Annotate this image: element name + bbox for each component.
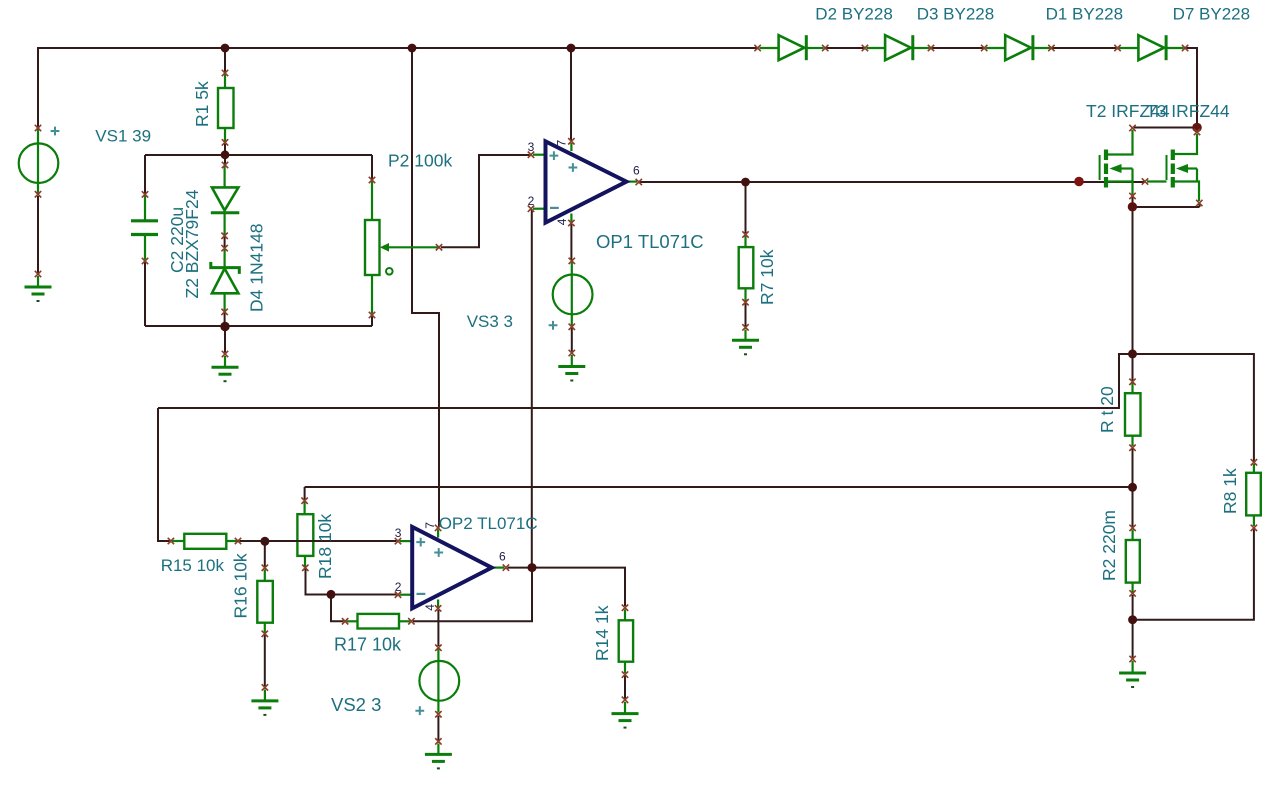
wire T3 source corner bbox=[1199, 204, 1201, 207]
wire rail down x412 jog to OP2 pin7 bbox=[412, 48, 439, 527]
ground VS3 bbox=[558, 355, 585, 381]
wire node C to R2 top bbox=[1132, 488, 1134, 527]
junction R15-R16 bbox=[260, 537, 269, 546]
svg-text:VS1 39: VS1 39 bbox=[95, 126, 151, 145]
wire pin2 node down to R17 left bbox=[331, 595, 344, 622]
ground node B bbox=[212, 356, 239, 381]
wire R7 top from output node bbox=[745, 182, 747, 233]
svg-text:4: 4 bbox=[423, 604, 437, 611]
svg-text:VS2 3: VS2 3 bbox=[331, 694, 381, 715]
op-amp OP2 TL071C bbox=[395, 522, 506, 611]
resistor R14 bbox=[619, 610, 633, 674]
resistor R15 bbox=[172, 534, 237, 549]
wire T2 source to source node bbox=[1132, 198, 1134, 207]
svg-text:D2 BY228: D2 BY228 bbox=[815, 4, 893, 23]
svg-text:R t 20: R t 20 bbox=[1097, 386, 1117, 433]
ground node D bbox=[1119, 661, 1146, 687]
resistor Rt bbox=[1125, 383, 1141, 446]
wire R1 bottom to node A bbox=[224, 144, 226, 154]
svg-text:VS3 3: VS3 3 bbox=[467, 312, 513, 331]
diode D7 BY228 bbox=[1119, 35, 1184, 60]
voltage source VS1 bbox=[19, 129, 59, 194]
svg-text:R8 1k: R8 1k bbox=[1220, 468, 1240, 514]
wire Rt node to R8 top bbox=[1133, 354, 1254, 461]
diode D2 BY228 bbox=[760, 35, 824, 60]
wire top rail left segment bbox=[38, 48, 757, 128]
resistor R2 bbox=[1126, 530, 1140, 593]
junction source node bbox=[1128, 202, 1137, 211]
diode D4 (lower, zener bar up) bbox=[211, 250, 240, 311]
junction Rt node bbox=[1128, 349, 1137, 358]
wire long feedback y408 bbox=[158, 354, 1131, 408]
diode D3 BY228 bbox=[867, 35, 930, 60]
wire OP2 output to R14 bbox=[508, 568, 626, 606]
wire source node down to Rt node bbox=[1132, 207, 1134, 354]
wire drain node horizontal bbox=[1134, 127, 1197, 129]
svg-text:OP2 TL071C: OP2 TL071C bbox=[439, 514, 538, 533]
ground R7 bbox=[732, 330, 759, 355]
wire node A to Z2 top bbox=[224, 156, 226, 164]
junction node D bbox=[1128, 615, 1137, 624]
wire VS3 to ground bbox=[571, 328, 573, 352]
svg-text:D1 BY228: D1 BY228 bbox=[1046, 4, 1124, 23]
wire Rt bottom to node C bbox=[1132, 449, 1134, 487]
junction gate pin bbox=[1074, 177, 1084, 187]
wire C2 bottom to node B bbox=[144, 263, 146, 327]
junction drain node bbox=[1192, 123, 1202, 133]
ground R14 bbox=[612, 702, 639, 728]
svg-text:6: 6 bbox=[633, 164, 640, 178]
svg-text:D3 BY228: D3 BY228 bbox=[917, 4, 995, 23]
wire R16 bottom to ground bbox=[264, 635, 266, 686]
wire D4 bottom to node B bbox=[224, 313, 226, 326]
resistor R18 bbox=[240, 502, 396, 567]
junction node A bbox=[221, 150, 230, 159]
ground VS1 bbox=[25, 276, 52, 301]
svg-text:R16 10k: R16 10k bbox=[231, 553, 251, 618]
wire node A horizontal bbox=[145, 154, 372, 156]
wire rail D2-D3 bbox=[826, 47, 864, 49]
diode D1 BY228 bbox=[986, 35, 1050, 60]
voltage source VS2 bbox=[419, 649, 459, 713]
junction rail R1 bbox=[221, 44, 230, 53]
label VS3 plus sign bbox=[549, 321, 558, 330]
ground VS2 bbox=[425, 744, 452, 769]
svg-text:T3 IRFZ44: T3 IRFZ44 bbox=[1146, 101, 1230, 121]
svg-text:R17 10k: R17 10k bbox=[334, 634, 402, 654]
voltage source VS3 bbox=[553, 262, 593, 326]
wire OP1 output long run to gates bbox=[640, 181, 1145, 183]
svg-text:6: 6 bbox=[499, 550, 506, 564]
wire rail D3-D1 bbox=[932, 47, 983, 49]
junction R7 output bbox=[741, 178, 750, 187]
junction node B bbox=[220, 322, 229, 331]
wire node B horizontal bbox=[145, 325, 372, 327]
wire rail to R1 top bbox=[224, 48, 226, 72]
transistor T2 IRFZ44 bbox=[1100, 130, 1133, 195]
wire rail D7 to right corner down bbox=[1186, 48, 1197, 126]
wire node D to ground bbox=[1132, 620, 1134, 658]
wire y408 corner down to R15 bbox=[158, 408, 170, 541]
wire node A to P2 top bbox=[371, 155, 373, 179]
wire rail junction to OP1 pin7 bbox=[570, 48, 572, 140]
wire node C horizontal y487 bbox=[305, 486, 1133, 488]
resistor R7 bbox=[739, 236, 754, 301]
svg-text:Z2 BZX79F24: Z2 BZX79F24 bbox=[182, 189, 202, 298]
resistor R17 bbox=[347, 614, 411, 629]
wire P2 bottom to node B bbox=[371, 317, 373, 327]
svg-text:4: 4 bbox=[555, 218, 569, 225]
wire OP1 pin2 down to OP2 output node bbox=[531, 210, 533, 568]
capacitor C2 bbox=[131, 196, 158, 260]
svg-text:R1 5k: R1 5k bbox=[192, 81, 212, 127]
potentiometer P2 bbox=[365, 182, 438, 314]
junction OP2 output node bbox=[528, 563, 537, 572]
resistor R1 bbox=[218, 75, 234, 142]
svg-text:D4 1N4148: D4 1N4148 bbox=[247, 223, 267, 312]
wire R14 bottom to ground bbox=[624, 676, 626, 699]
wire R7 bottom to ground bbox=[745, 304, 747, 327]
junction rail x412 bbox=[408, 44, 417, 53]
label VS2 plus sign bbox=[415, 706, 424, 715]
resistor R8 bbox=[1246, 464, 1261, 526]
wire R17 right to OP2 output node bbox=[413, 569, 532, 621]
wire node A to C2 top bbox=[144, 155, 146, 193]
op-amp OP1 TL071C bbox=[528, 140, 640, 226]
wire node D to R8 bottom bbox=[1133, 530, 1254, 620]
junction rail pin7 bbox=[567, 44, 576, 53]
svg-text:R18 10k: R18 10k bbox=[315, 514, 335, 579]
junction node C bbox=[1128, 483, 1137, 492]
svg-text:D7 BY228: D7 BY228 bbox=[1173, 4, 1251, 23]
diode Z2 (upper, cathode bar down) bbox=[211, 167, 240, 235]
wire node C corner to R18 top bbox=[304, 487, 306, 500]
resistor R16 bbox=[257, 570, 273, 633]
ground R16 bbox=[251, 690, 278, 715]
svg-text:R2 220m: R2 220m bbox=[1099, 510, 1119, 581]
junction pin2 node bbox=[327, 590, 336, 599]
wire OP1 pin4 to VS3 bbox=[570, 225, 572, 260]
wire OP2 pin4 to VS2 bbox=[437, 610, 439, 646]
wire R2 bottom to node D bbox=[1132, 595, 1134, 619]
svg-text:R7 10k: R7 10k bbox=[757, 249, 777, 305]
wire P2 wiper to OP1 pin3 bbox=[441, 155, 530, 247]
wire R18 bottom to pin2 node bbox=[306, 569, 397, 595]
wire node B to ground bbox=[224, 327, 226, 353]
wire VS1 to ground bbox=[37, 196, 39, 273]
wire R16 junction down bbox=[264, 542, 266, 567]
wire source node horizontal bbox=[1133, 206, 1200, 208]
wire rail D1-D7 bbox=[1052, 47, 1116, 49]
wire Z2 to D4 middle bbox=[224, 237, 226, 247]
svg-text:R14 1k: R14 1k bbox=[592, 605, 612, 661]
svg-text:P2 100k: P2 100k bbox=[388, 151, 452, 171]
wire R15 right to OP2 pin3 bbox=[240, 540, 397, 542]
svg-text:OP1 TL071C: OP1 TL071C bbox=[596, 231, 704, 252]
svg-text:R15 10k: R15 10k bbox=[161, 556, 225, 575]
transistor T3 IRFZ44 bbox=[1147, 134, 1199, 201]
wire Rt top lead bbox=[1132, 355, 1134, 381]
wire VS2 to ground bbox=[437, 716, 439, 740]
svg-text:7: 7 bbox=[555, 140, 569, 147]
label VS1 plus sign bbox=[51, 127, 60, 136]
